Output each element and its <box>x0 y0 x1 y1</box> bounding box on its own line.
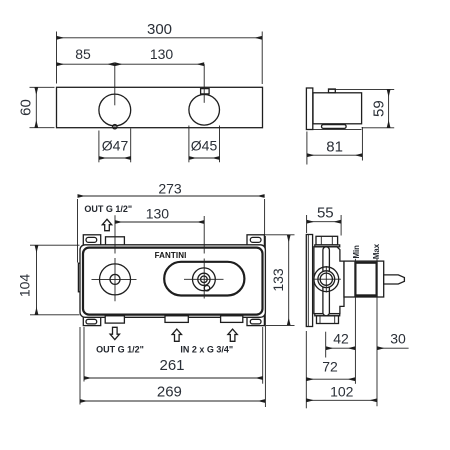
svg-text:85: 85 <box>75 46 91 62</box>
valve left centerline upper <box>114 215 116 253</box>
dim 55 extension right <box>340 215 342 236</box>
dim 273 extension right <box>264 199 266 235</box>
side view2 plate inner line <box>307 235 309 327</box>
svg-text:55: 55 <box>317 205 334 222</box>
svg-text:133: 133 <box>270 268 286 292</box>
svg-text:42: 42 <box>333 331 349 347</box>
spindle <box>384 275 405 284</box>
svg-text:130: 130 <box>150 46 174 62</box>
dim 59 line <box>388 89 390 127</box>
knob left centerline <box>114 64 116 105</box>
dim 273 line <box>78 195 265 197</box>
side view handle <box>322 125 347 129</box>
dim 60 line <box>35 87 37 127</box>
side view tab <box>329 89 336 93</box>
dim 81 line <box>307 154 363 156</box>
svg-text:Min: Min <box>352 245 361 259</box>
svg-text:300: 300 <box>147 21 172 38</box>
dim 104 extension top <box>30 244 80 246</box>
valve right centerline upper <box>203 216 205 254</box>
side view2 bottom tab <box>317 316 339 324</box>
dim 81 extension right <box>361 127 363 161</box>
Min line <box>354 259 356 384</box>
dim O45 extension right <box>219 126 221 163</box>
dim 104 line <box>36 245 38 315</box>
side view2 crosshair vertical <box>325 266 327 293</box>
valve right crosshair horizontal <box>184 278 224 280</box>
dim 42 line <box>326 347 356 349</box>
slot top-left <box>86 237 97 242</box>
arrow out top <box>102 219 111 230</box>
slot bottom-left <box>86 319 97 324</box>
dim 42 extension left <box>325 332 327 358</box>
dim 102 line <box>306 399 377 401</box>
svg-text:60: 60 <box>18 99 35 116</box>
box tab bottom-left <box>83 315 100 326</box>
dim 133 extension bottom <box>266 324 295 326</box>
dim 269 line <box>80 400 265 402</box>
knob left (Ø47) <box>99 94 131 126</box>
dim 59 extension top <box>362 88 394 90</box>
valve right bold circle <box>198 273 210 285</box>
box tab bottom-right <box>247 315 264 326</box>
side view2 top tab <box>316 236 338 245</box>
side view base line <box>313 128 362 130</box>
svg-text:IN 2 x G 3/4": IN 2 x G 3/4" <box>180 344 233 354</box>
IN port right <box>221 316 243 323</box>
IN port left <box>165 316 188 323</box>
svg-text:72: 72 <box>322 358 338 374</box>
box top port <box>106 237 125 247</box>
valve right stadium <box>164 262 244 296</box>
valve left outer circle <box>100 264 131 295</box>
dim 72 line <box>306 378 355 380</box>
dim 104 extension bottom <box>30 314 80 316</box>
svg-text:Ø45: Ø45 <box>191 138 218 154</box>
knob right notch <box>201 89 210 94</box>
svg-text:81: 81 <box>326 138 343 155</box>
side view plate edge <box>306 88 312 130</box>
side view2 lever <box>323 247 330 316</box>
dim 269 extension left <box>79 327 81 405</box>
slot bottom-right <box>250 319 261 324</box>
side view2 top step <box>315 245 340 247</box>
dim 59 extension bottom <box>362 127 395 129</box>
dim 72 extension left <box>305 331 307 408</box>
svg-text:FANTINI: FANTINI <box>155 251 187 260</box>
OUT port bottom <box>105 316 124 323</box>
svg-text:269: 269 <box>157 384 182 401</box>
svg-text:30: 30 <box>390 331 406 347</box>
dim 300 extension left <box>56 32 58 84</box>
svg-text:OUT G 1/2": OUT G 1/2" <box>84 204 132 214</box>
knob right centerline <box>203 64 205 103</box>
dim O47 extension right <box>130 129 132 163</box>
dim 55 line <box>307 221 342 223</box>
side view2 valve inner circle <box>320 273 332 285</box>
box left flange <box>78 263 81 292</box>
trim plate front view <box>57 87 263 127</box>
side view body <box>313 93 362 124</box>
box tab top-right <box>247 235 264 247</box>
dim O45 line <box>189 157 220 159</box>
side view2 body <box>314 247 344 314</box>
cartridge outer <box>344 261 384 297</box>
box tab top-left <box>83 235 100 247</box>
side view2 top tab inner lines <box>320 236 322 245</box>
slot top-right <box>250 237 261 242</box>
side view2 bottom step <box>315 314 340 316</box>
valve left centerline lower <box>114 258 116 301</box>
dim 85 line <box>57 63 115 65</box>
box inner body <box>83 248 263 315</box>
svg-text:273: 273 <box>158 180 182 196</box>
dim 30 line <box>377 347 409 349</box>
dim 60 extension bottom <box>30 127 55 129</box>
dim 273 extension left <box>77 199 79 263</box>
valve right tiny circle <box>201 276 208 283</box>
svg-text:104: 104 <box>17 274 33 298</box>
knob right (Ø45) <box>189 95 220 126</box>
svg-text:59: 59 <box>371 100 388 117</box>
dim 300 extension right <box>261 32 263 85</box>
svg-text:261: 261 <box>159 357 184 374</box>
arrow out bottom <box>110 327 119 339</box>
dim 261 extension left <box>83 327 85 382</box>
dim 130 line <box>115 63 204 65</box>
dim O47 line <box>99 157 131 159</box>
dim 81 extension left <box>306 132 308 165</box>
svg-text:OUT G 1/2": OUT G 1/2" <box>96 344 144 354</box>
dim 300 line <box>57 37 263 39</box>
arrow in right <box>228 329 237 341</box>
box outer body <box>80 245 265 317</box>
dim 55 extension left <box>306 215 308 233</box>
cartridge inner <box>355 263 376 296</box>
svg-text:130: 130 <box>146 206 170 222</box>
side view2 plate <box>306 235 312 327</box>
svg-text:Max: Max <box>372 243 381 259</box>
valve right centerline lower <box>203 259 205 299</box>
dim 269 extension right <box>264 236 266 407</box>
side view2 valve mid circle <box>318 271 335 288</box>
svg-text:Ø47: Ø47 <box>102 138 129 154</box>
svg-text:102: 102 <box>330 383 354 399</box>
valve left inner circle <box>110 274 120 284</box>
dim O47 extension left <box>98 131 100 163</box>
Max line <box>376 259 378 407</box>
dim 133 extension top <box>263 234 295 236</box>
arrow in left <box>172 329 181 341</box>
dim 133 line <box>288 235 290 326</box>
dim 261 line <box>84 377 263 379</box>
side view2 bottom tab inner lines <box>319 316 321 324</box>
dim 60 extension top <box>30 86 55 88</box>
side view lid line <box>329 88 363 90</box>
valve right mid circle <box>193 268 216 291</box>
dim 261 extension right <box>262 327 264 384</box>
dim 130 box line <box>115 221 204 223</box>
side view2 crosshair horizontal <box>313 278 341 280</box>
valve left crosshair horizontal <box>92 278 137 280</box>
knob left bump <box>113 125 117 129</box>
side view2 valve outer circle <box>314 267 339 292</box>
dim O45 extension left <box>188 126 190 163</box>
valve right notch circle <box>204 286 209 291</box>
